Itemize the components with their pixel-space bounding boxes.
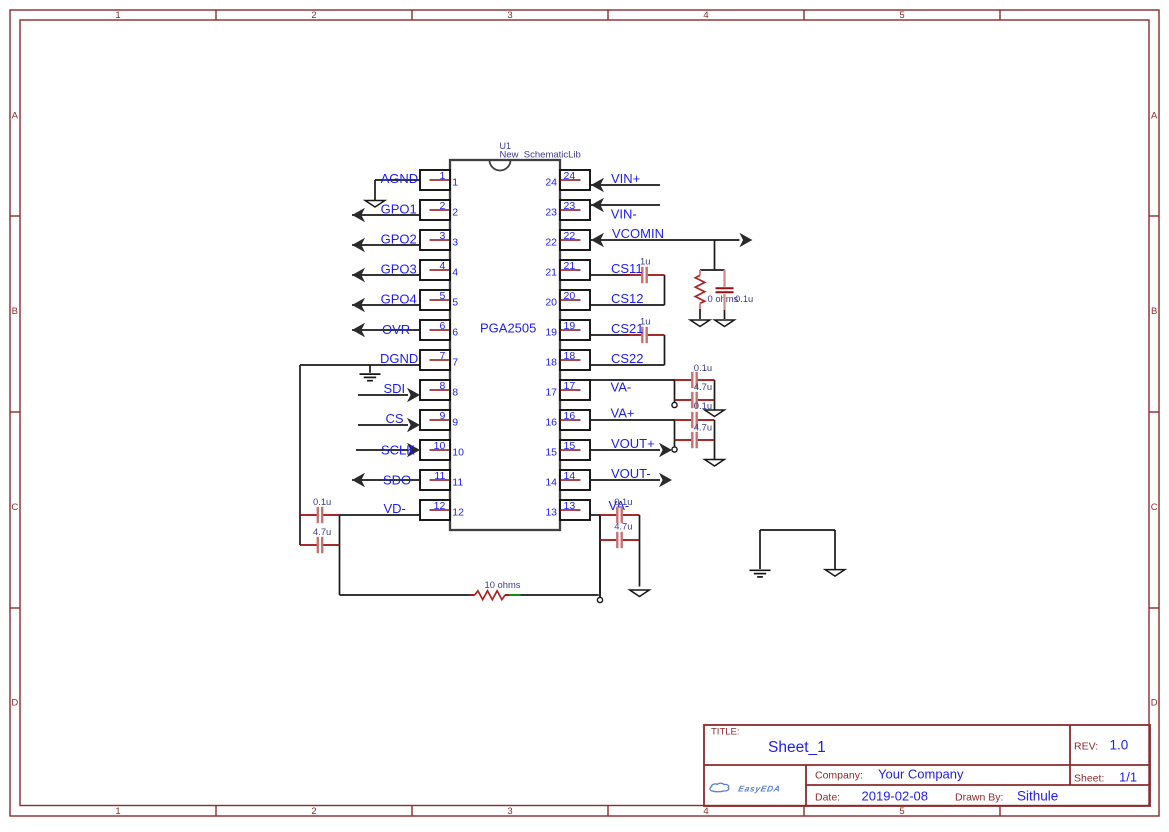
pin 12 (VD-) [420, 500, 464, 520]
pin 11 (SDO) [420, 470, 463, 490]
svg-text:20: 20 [545, 297, 557, 309]
svg-text:1/1: 1/1 [1119, 770, 1137, 785]
net label GPO2 [381, 232, 417, 247]
svg-text:21: 21 [545, 267, 557, 279]
svg-text:11: 11 [452, 477, 463, 489]
svg-text:Sithule: Sithule [1017, 789, 1058, 804]
svg-text:1: 1 [115, 10, 120, 21]
pin 21 (CS11) [545, 260, 590, 280]
title block [704, 725, 1150, 806]
part name New_SchematicLib [500, 150, 581, 161]
port arrow GPO2 [352, 238, 365, 253]
net label CS12 [611, 291, 644, 306]
svg-text:22: 22 [564, 230, 576, 242]
net label SDI [384, 381, 406, 396]
value 4.7u (VA-) [694, 381, 712, 392]
svg-text:SDO: SDO [383, 473, 411, 488]
svg-text:14: 14 [564, 470, 576, 482]
svg-text:2019-02-08: 2019-02-08 [862, 789, 929, 804]
refdes U1 [500, 141, 512, 151]
svg-text:18: 18 [564, 350, 576, 362]
svg-text:0.1u: 0.1u [735, 293, 753, 304]
svg-text:4: 4 [703, 10, 708, 21]
net label VD- [384, 501, 406, 516]
pin 8 (SDI) [420, 380, 458, 400]
svg-text:VIN-: VIN- [611, 207, 637, 222]
wire SDO [352, 479, 420, 481]
port arrow VCOMIN (input) [591, 233, 604, 248]
pin 23 (VIN-) [545, 200, 590, 220]
svg-text:0.1u: 0.1u [313, 496, 331, 507]
net label VOUT+ [611, 436, 655, 451]
svg-text:Company:: Company: [815, 770, 863, 782]
svg-text:12: 12 [452, 507, 464, 519]
svg-text:3: 3 [452, 237, 458, 249]
svg-text:CS11: CS11 [611, 261, 643, 276]
svg-text:A: A [1151, 111, 1158, 122]
svg-text:D: D [1151, 698, 1158, 709]
svg-text:4.7u: 4.7u [313, 526, 331, 537]
capacitor 0.1u (pin 13) [600, 507, 640, 523]
ground (3-bar standalone) [750, 570, 771, 577]
pin 22 (VCOMIN) [545, 230, 590, 250]
svg-text:B: B [1151, 306, 1157, 317]
svg-text:23: 23 [564, 200, 576, 212]
svg-text:Date:: Date: [815, 792, 840, 804]
net label GPO4 [381, 292, 417, 307]
port arrow GPO4 [352, 298, 365, 313]
pin 19 (CS21) [545, 320, 590, 340]
value 4.7u (VA+) [694, 422, 712, 433]
svg-text:VA+: VA+ [611, 406, 635, 421]
svg-text:1.0: 1.0 [1110, 738, 1129, 753]
ground (VA+ caps) [705, 460, 725, 467]
value 0.1u (VA+) [694, 400, 712, 411]
wire VOUT- [590, 479, 660, 481]
svg-text:4: 4 [703, 806, 708, 817]
svg-text:SDI: SDI [384, 381, 406, 396]
svg-text:8: 8 [439, 380, 445, 392]
port arrow VCOMIN (output) [739, 233, 752, 248]
svg-text:17: 17 [564, 380, 576, 392]
IC U1 PGA2505 [450, 160, 560, 530]
svg-text:4: 4 [439, 260, 445, 272]
svg-text:3: 3 [507, 806, 512, 817]
pin 10 (SCLK) [420, 440, 464, 460]
ground (pin 13 caps) [630, 590, 650, 597]
pin 9 (CS) [420, 410, 458, 430]
value 1u [640, 255, 650, 266]
net label VA- (pin 13) [609, 498, 630, 513]
node circle VA+ [672, 447, 677, 452]
port arrow OVR [352, 323, 365, 338]
svg-text:7: 7 [452, 357, 458, 369]
svg-text:17: 17 [545, 387, 557, 399]
svg-text:0 ohms: 0 ohms [708, 293, 739, 304]
svg-text:11: 11 [434, 470, 445, 482]
svg-text:A: A [12, 111, 19, 122]
svg-text:6: 6 [452, 327, 458, 339]
wire GPO1 [352, 214, 420, 216]
wire GPO2 [352, 244, 420, 246]
port arrow SDO [352, 473, 365, 488]
pin 17 (VA-) [545, 380, 590, 400]
node circle VA- [672, 402, 677, 407]
svg-text:4.7u: 4.7u [694, 422, 712, 433]
net label VA+ [611, 406, 635, 421]
svg-text:10 ohms: 10 ohms [485, 579, 521, 590]
net label VCOMIN [612, 226, 664, 241]
svg-text:21: 21 [564, 260, 576, 272]
ground AGND [365, 201, 385, 208]
pin 15 (VOUT+) [545, 440, 590, 460]
wire DGND [300, 365, 420, 373]
svg-text:VD-: VD- [384, 501, 406, 516]
capacitor C 1u (CS21) [625, 327, 665, 343]
wire VIN+ [591, 184, 660, 186]
wire GPO4 [352, 304, 420, 306]
svg-text:6: 6 [439, 320, 445, 332]
pin 2 (GPO1) [420, 200, 458, 220]
EasyEDA logo [710, 783, 782, 793]
svg-text:19: 19 [564, 320, 576, 332]
value 0.1u [313, 496, 331, 507]
svg-text:CS12: CS12 [611, 291, 644, 306]
pin 6 (OVR) [420, 320, 458, 340]
value 0 ohms [708, 293, 739, 304]
wire VA+ [590, 420, 715, 459]
wire VD- [340, 514, 421, 516]
svg-text:8: 8 [452, 387, 458, 399]
port arrow VOUT- [659, 473, 672, 488]
value 0.1u (pin 13) [614, 496, 632, 507]
wire green fragment [510, 594, 521, 596]
svg-text:3: 3 [439, 230, 445, 242]
net label OVR [382, 322, 410, 337]
svg-text:C: C [11, 502, 18, 513]
capacitor C 1u (CS11) [625, 267, 665, 283]
svg-text:5: 5 [452, 297, 458, 309]
svg-text:10: 10 [434, 440, 446, 452]
svg-text:9: 9 [452, 417, 458, 429]
net label GPO3 [381, 262, 417, 277]
pin 1 (AGND) [420, 170, 458, 190]
svg-text:B: B [12, 306, 18, 317]
wire VA- [590, 380, 715, 410]
svg-text:TITLE:: TITLE: [711, 727, 740, 738]
wire VA- (pin 13) [590, 515, 640, 597]
wire VCOMIN [590, 240, 740, 270]
svg-text:7: 7 [439, 350, 445, 362]
svg-text:VA-: VA- [611, 380, 632, 395]
svg-text:0.1u: 0.1u [694, 400, 712, 411]
resistor R 10 ohms [470, 591, 510, 600]
capacitor 0.1u (VA+) [675, 412, 715, 428]
svg-text:15: 15 [545, 447, 557, 459]
svg-text:C: C [1151, 502, 1158, 513]
pin 20 (CS12) [545, 290, 590, 310]
svg-text:CS: CS [386, 411, 404, 426]
pin 14 (VOUT-) [545, 470, 590, 490]
svg-text:Sheet:: Sheet: [1074, 773, 1104, 785]
svg-text:OVR: OVR [382, 322, 410, 337]
wire OVR [352, 329, 420, 331]
svg-text:5: 5 [899, 10, 904, 21]
port arrow VIN+ [591, 178, 604, 193]
port arrow SCLK [407, 443, 420, 458]
wire SDI [358, 394, 408, 396]
svg-text:VOUT+: VOUT+ [611, 436, 655, 451]
svg-text:VIN+: VIN+ [611, 171, 640, 186]
pin 3 (GPO2) [420, 230, 458, 250]
svg-text:24: 24 [545, 177, 557, 189]
svg-text:1: 1 [452, 177, 458, 189]
svg-text:SCLK: SCLK [381, 443, 415, 458]
net label CS21 [611, 321, 644, 336]
ground (VCOMIN cap) [715, 320, 735, 327]
svg-text:3: 3 [507, 10, 512, 21]
ground (0 ohms) [690, 320, 710, 327]
svg-text:CS21: CS21 [611, 321, 644, 336]
net label AGND [381, 171, 419, 186]
svg-text:22: 22 [545, 237, 557, 249]
pin 24 (VIN+) [545, 170, 590, 190]
svg-text:VOUT-: VOUT- [611, 466, 651, 481]
svg-text:Drawn By:: Drawn By: [955, 792, 1003, 804]
value 4.7u (pin 13) [614, 521, 632, 532]
wire CS12 [590, 304, 665, 306]
svg-text:GPO4: GPO4 [381, 292, 417, 307]
value 1u (CS21) [640, 315, 650, 326]
net label VOUT- [611, 466, 651, 481]
port arrow GPO1 [352, 208, 365, 223]
svg-text:Sheet_1: Sheet_1 [768, 739, 826, 756]
net label SCLK [381, 443, 415, 458]
wire CS11 [590, 275, 665, 305]
svg-text:EasyEDA: EasyEDA [737, 783, 781, 793]
net label VIN+ [611, 171, 640, 186]
svg-text:5: 5 [899, 806, 904, 817]
svg-text:1: 1 [115, 806, 120, 817]
value 10 ohms [485, 579, 521, 590]
svg-text:13: 13 [545, 507, 557, 519]
wire ground pair [760, 530, 835, 569]
capacitor 4.7u (left) [300, 537, 340, 553]
wire VD- vertical branches [300, 365, 340, 595]
svg-text:4.7u: 4.7u [614, 521, 632, 532]
ground DGND [360, 374, 381, 381]
wire VIN- [591, 204, 660, 206]
capacitor 4.7u (VA-) [675, 392, 715, 408]
port arrow GPO3 [352, 268, 365, 283]
node circle bottom [597, 597, 602, 602]
net label SDO [383, 473, 411, 488]
pin 16 (VA+) [545, 410, 590, 430]
wire VOUT+ [590, 449, 660, 451]
svg-text:PGA2505: PGA2505 [480, 321, 536, 336]
port arrow CS [407, 418, 420, 433]
svg-text:GPO3: GPO3 [381, 262, 417, 277]
value 4.7u [313, 526, 331, 537]
svg-text:AGND: AGND [381, 171, 419, 186]
capacitor 0.1u (VA-) [675, 372, 715, 388]
wire bottom rail [340, 515, 601, 597]
svg-text:10: 10 [452, 447, 464, 459]
pin 4 (GPO3) [420, 260, 458, 280]
svg-text:GPO1: GPO1 [381, 201, 417, 216]
net label CS22 [611, 351, 644, 366]
net label CS11 [611, 261, 643, 276]
svg-text:DGND: DGND [380, 351, 418, 366]
net label GPO1 [381, 201, 417, 216]
ground (VA- caps) [705, 410, 725, 417]
svg-text:23: 23 [545, 207, 557, 219]
svg-text:2: 2 [311, 806, 316, 817]
svg-text:4: 4 [452, 267, 458, 279]
svg-text:REV:: REV: [1074, 741, 1098, 753]
pin 13 (VA-) [545, 500, 590, 520]
svg-text:1: 1 [439, 170, 445, 182]
value 0.1u (VCOMIN) [735, 293, 753, 304]
pin 5 (GPO4) [420, 290, 458, 310]
svg-text:D: D [11, 698, 18, 709]
svg-text:5: 5 [439, 290, 445, 302]
capacitor 0.1u (left) [300, 507, 340, 523]
svg-text:CS22: CS22 [611, 351, 644, 366]
port arrow VIN- [591, 198, 604, 213]
wire SCLK [356, 449, 408, 451]
net label VIN- [611, 207, 637, 222]
resistor R 0 ohms [695, 270, 704, 319]
svg-text:0.1u: 0.1u [694, 362, 712, 373]
svg-text:Your Company: Your Company [878, 767, 964, 782]
svg-text:19: 19 [545, 327, 557, 339]
svg-text:4.7u: 4.7u [694, 381, 712, 392]
svg-text:16: 16 [564, 410, 576, 422]
svg-text:24: 24 [564, 170, 576, 182]
svg-text:16: 16 [545, 417, 557, 429]
svg-text:VCOMIN: VCOMIN [612, 226, 664, 241]
net label DGND [380, 351, 418, 366]
net label VA- [611, 380, 632, 395]
port arrow SDI [407, 388, 420, 403]
svg-text:14: 14 [545, 477, 557, 489]
pin 18 (CS22) [545, 350, 590, 370]
value PGA2505 [480, 321, 536, 336]
wire GPO3 [352, 274, 420, 276]
value 0.1u (VA-) [694, 362, 712, 373]
wire CS21 [590, 335, 665, 365]
svg-text:9: 9 [439, 410, 445, 422]
port arrow VOUT+ [659, 443, 672, 458]
capacitor 0.1u (VCOMIN) [716, 270, 734, 319]
svg-text:New_SchematicLib: New_SchematicLib [500, 150, 581, 161]
net label CS [386, 411, 404, 426]
capacitor 4.7u (pin 13) [600, 532, 640, 548]
svg-text:GPO2: GPO2 [381, 232, 417, 247]
svg-text:2: 2 [439, 200, 445, 212]
svg-text:18: 18 [545, 357, 557, 369]
svg-text:15: 15 [564, 440, 576, 452]
svg-text:0.1u: 0.1u [614, 496, 632, 507]
capacitor 4.7u (VA+) [675, 432, 715, 448]
wire CS22 [590, 364, 665, 366]
svg-text:2: 2 [452, 207, 458, 219]
pin 7 (DGND) [420, 350, 458, 370]
ground (triangle standalone) [825, 570, 845, 577]
wire CS [358, 424, 408, 426]
wire AGND [375, 180, 420, 200]
svg-text:20: 20 [564, 290, 576, 302]
svg-text:12: 12 [434, 500, 446, 512]
svg-text:2: 2 [311, 10, 316, 21]
svg-text:13: 13 [564, 500, 576, 512]
